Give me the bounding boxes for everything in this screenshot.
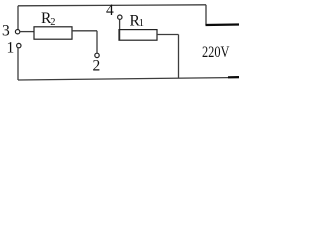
label terminal 1 — [7, 39, 15, 56]
svg-text:220V: 220V — [202, 44, 230, 61]
wire terminal 4 to R1 — [119, 19, 121, 40]
wire left vertical to terminal 3 — [17, 6, 19, 30]
terminal 1 — [17, 43, 21, 47]
terminal 3 — [15, 30, 19, 34]
svg-text:4: 4 — [106, 2, 114, 19]
wire terminal 3 to R2 — [20, 31, 34, 33]
label terminal 2 — [93, 58, 101, 75]
wire 220V bottom lead tip — [228, 76, 239, 78]
terminal 4 — [118, 15, 122, 19]
svg-text:2: 2 — [93, 58, 101, 75]
label 220V — [202, 44, 230, 61]
label R1 — [130, 13, 145, 30]
label R2 — [41, 10, 56, 28]
label terminal 4 — [106, 2, 114, 19]
svg-text:1: 1 — [139, 18, 144, 29]
wire terminal 1 to bottom — [17, 48, 19, 80]
label terminal 3 — [2, 22, 10, 39]
resistor R2 — [34, 27, 72, 39]
svg-text:1: 1 — [7, 39, 15, 56]
wire 220V top lead — [206, 23, 240, 26]
resistor R1 — [119, 30, 157, 41]
wire R2 to corner — [72, 30, 97, 32]
wire top — [18, 5, 206, 6]
wire node down to bottom — [178, 35, 180, 79]
wire top-right step down — [205, 5, 207, 25]
wire R1 to node — [157, 34, 179, 36]
wire bottom — [18, 78, 239, 81]
terminal 2 — [95, 53, 99, 57]
svg-text:2: 2 — [50, 17, 55, 28]
wire corner down to terminal 2 — [96, 31, 98, 53]
svg-text:3: 3 — [2, 22, 10, 39]
